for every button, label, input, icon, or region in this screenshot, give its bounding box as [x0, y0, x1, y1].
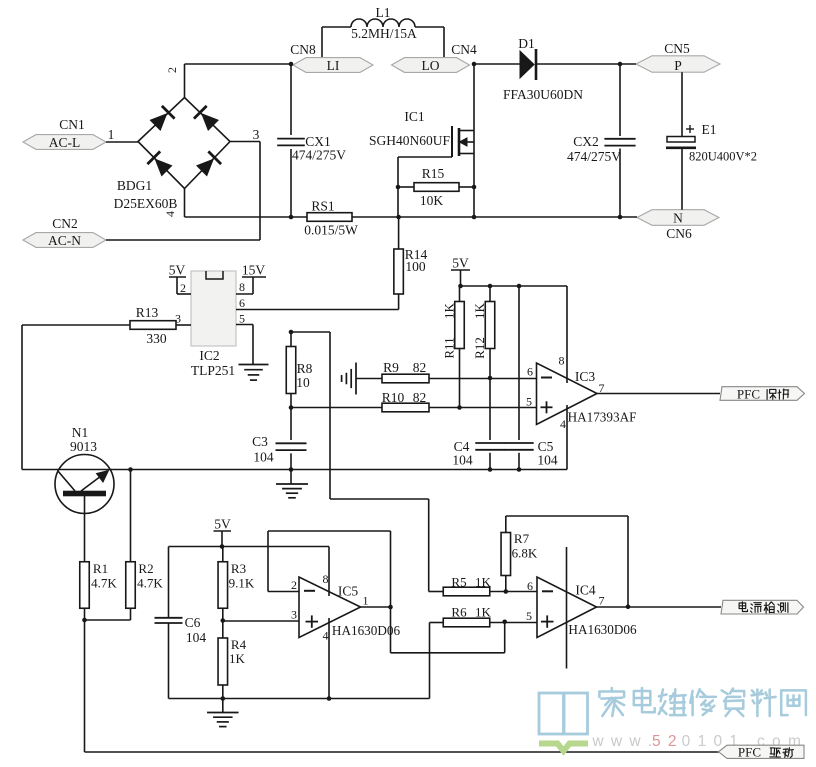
svg-text:N1: N1 — [72, 425, 89, 440]
svg-text:LO: LO — [422, 58, 440, 73]
svg-text:R8: R8 — [297, 361, 313, 376]
svg-text:R2: R2 — [138, 561, 153, 576]
svg-text:R12: R12 — [472, 337, 487, 359]
svg-text:5: 5 — [526, 609, 532, 623]
svg-text:9.1K: 9.1K — [229, 576, 255, 591]
svg-text:IC2: IC2 — [199, 348, 219, 363]
svg-text:CN5: CN5 — [664, 41, 690, 56]
svg-text:R5: R5 — [451, 575, 466, 590]
svg-text:3: 3 — [253, 127, 260, 142]
svg-text:RS1: RS1 — [311, 199, 334, 214]
svg-text:5V: 5V — [169, 263, 186, 278]
svg-text:5: 5 — [239, 312, 245, 326]
svg-text:R11: R11 — [442, 337, 457, 358]
svg-text:2: 2 — [165, 67, 179, 73]
svg-text:N: N — [673, 211, 683, 226]
svg-text:1K: 1K — [475, 605, 492, 620]
svg-text:R1: R1 — [93, 561, 108, 576]
svg-text:CN2: CN2 — [52, 216, 78, 231]
svg-text:2: 2 — [291, 578, 297, 592]
svg-text:820U400V*2: 820U400V*2 — [689, 150, 757, 164]
svg-text:5.2MH/15A: 5.2MH/15A — [351, 26, 417, 41]
svg-text:HA1630D06: HA1630D06 — [332, 623, 401, 638]
svg-text:HA17393AF: HA17393AF — [568, 410, 637, 425]
svg-text:IC4: IC4 — [575, 583, 596, 598]
svg-text:104: 104 — [186, 630, 207, 645]
svg-text:TLP251: TLP251 — [191, 363, 235, 378]
svg-text:R13: R13 — [136, 305, 159, 320]
svg-text:R10: R10 — [382, 390, 405, 405]
svg-text:R9: R9 — [383, 360, 399, 375]
svg-text:2: 2 — [180, 281, 186, 295]
svg-text:8: 8 — [559, 354, 565, 368]
svg-text:3: 3 — [175, 312, 181, 326]
svg-text:1K: 1K — [475, 575, 492, 590]
svg-text:R6: R6 — [451, 605, 467, 620]
svg-text:10K: 10K — [420, 193, 444, 208]
svg-text:82: 82 — [413, 390, 427, 405]
svg-text:104: 104 — [253, 450, 274, 465]
svg-text:7: 7 — [599, 381, 605, 395]
svg-text:4.7K: 4.7K — [91, 576, 117, 591]
svg-text:R4: R4 — [231, 637, 247, 652]
svg-text:1K: 1K — [229, 651, 246, 666]
svg-text:BDG1: BDG1 — [117, 178, 152, 193]
svg-text:AC-N: AC-N — [48, 233, 81, 248]
svg-text:10: 10 — [296, 375, 310, 390]
svg-text:1: 1 — [108, 127, 115, 142]
svg-text:P: P — [674, 58, 682, 73]
svg-text:CN6: CN6 — [666, 226, 692, 241]
svg-text:PFC: PFC — [738, 745, 761, 760]
svg-text:AC-L: AC-L — [49, 135, 81, 150]
svg-text:104: 104 — [537, 453, 558, 468]
svg-text:IC3: IC3 — [575, 369, 596, 384]
svg-text:1K: 1K — [472, 302, 487, 319]
svg-text:330: 330 — [146, 331, 167, 346]
svg-text:w w w .: w w w . — [591, 733, 653, 750]
svg-text:D1: D1 — [518, 36, 535, 51]
svg-text:82: 82 — [413, 360, 427, 375]
svg-text:8: 8 — [323, 572, 329, 586]
svg-text:9013: 9013 — [70, 439, 97, 454]
svg-text:1: 1 — [363, 594, 369, 608]
svg-text:474/275V: 474/275V — [567, 149, 621, 164]
svg-text:LI: LI — [327, 58, 340, 73]
svg-text:CN8: CN8 — [290, 42, 316, 57]
svg-text:R15: R15 — [422, 166, 445, 181]
svg-text:8: 8 — [239, 280, 245, 294]
svg-text:5: 5 — [526, 395, 532, 409]
svg-text:R7: R7 — [514, 531, 530, 546]
svg-text:IC1: IC1 — [404, 109, 424, 124]
svg-text:C3: C3 — [252, 434, 268, 449]
svg-text:HA1630D06: HA1630D06 — [568, 622, 637, 637]
svg-text:4: 4 — [163, 211, 177, 217]
svg-text:E1: E1 — [702, 122, 717, 137]
svg-text:R3: R3 — [231, 561, 246, 576]
svg-text:D25EX60B: D25EX60B — [114, 196, 178, 211]
svg-text:IC5: IC5 — [338, 584, 359, 599]
svg-text:15V: 15V — [242, 263, 266, 278]
svg-text:474/275V: 474/275V — [292, 148, 346, 163]
svg-text:4: 4 — [560, 417, 566, 431]
svg-text:6.8K: 6.8K — [512, 546, 538, 561]
svg-text:6: 6 — [527, 579, 533, 593]
svg-text:104: 104 — [452, 453, 473, 468]
svg-text:3: 3 — [291, 608, 297, 622]
svg-text:0.015/5W: 0.015/5W — [304, 223, 358, 238]
svg-text:1K: 1K — [442, 302, 457, 319]
svg-text:5V: 5V — [214, 517, 231, 532]
svg-text:100: 100 — [405, 259, 426, 274]
svg-text:L1: L1 — [376, 5, 391, 20]
svg-text:CX2: CX2 — [573, 134, 599, 149]
svg-text:SGH40N60UF: SGH40N60UF — [369, 133, 451, 148]
svg-text:6: 6 — [239, 296, 245, 310]
svg-text:C6: C6 — [185, 615, 201, 630]
svg-text:PFC: PFC — [737, 386, 760, 401]
svg-text:FFA30U60DN: FFA30U60DN — [503, 87, 583, 102]
svg-text:4.7K: 4.7K — [137, 576, 163, 591]
svg-text:5 2: 5 2 — [652, 733, 678, 750]
svg-text:CN4: CN4 — [451, 42, 477, 57]
svg-text:6: 6 — [527, 365, 533, 379]
svg-text:5V: 5V — [452, 256, 469, 271]
svg-text:7: 7 — [599, 594, 605, 608]
svg-text:CN1: CN1 — [59, 117, 85, 132]
svg-text:4: 4 — [323, 629, 329, 643]
